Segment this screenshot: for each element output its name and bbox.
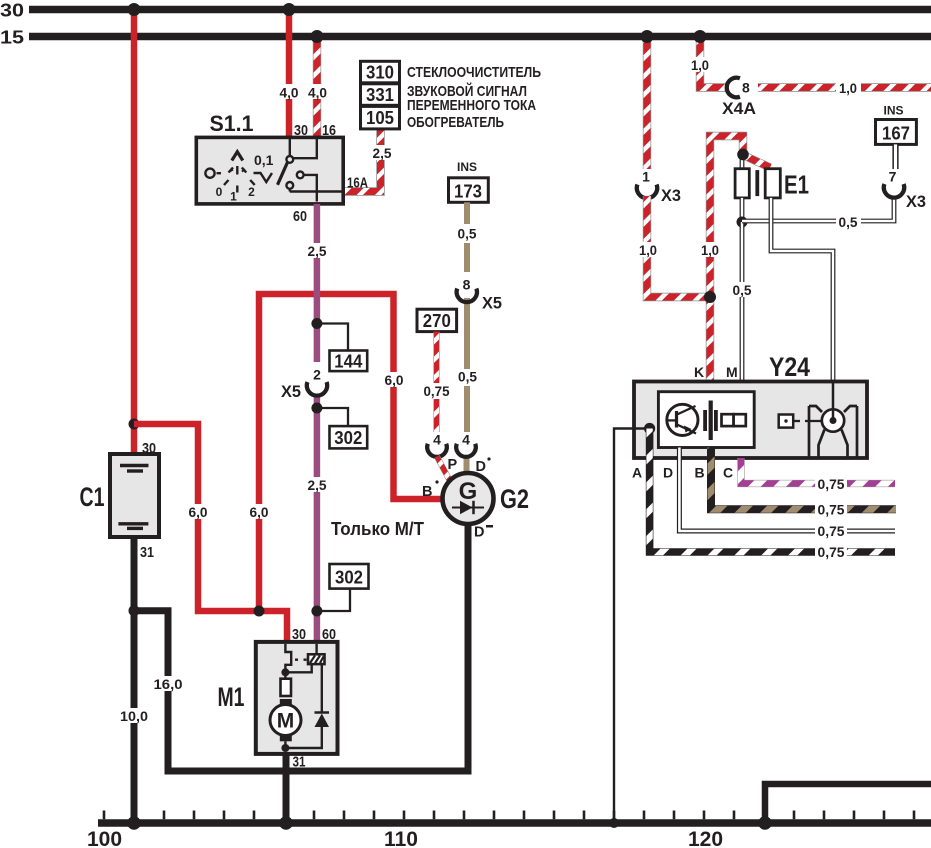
rail step to right edge bbox=[765, 784, 931, 823]
svg-text:110: 110 bbox=[384, 828, 418, 848]
svg-text:1,0: 1,0 bbox=[839, 81, 857, 96]
Y24 inner module box bbox=[658, 392, 754, 448]
svg-text:16: 16 bbox=[322, 122, 336, 139]
label 1,0 above X4A bbox=[688, 57, 713, 73]
node junction purple to 302 bbox=[311, 403, 322, 414]
svg-text:16,0: 16,0 bbox=[154, 677, 183, 692]
fuse box 105 bbox=[361, 106, 400, 128]
connector chain INS 167 bbox=[876, 103, 917, 144]
wire thin black from Y24 to rail bbox=[614, 429, 650, 824]
svg-text:0,5: 0,5 bbox=[733, 283, 752, 298]
svg-text:331: 331 bbox=[366, 85, 394, 105]
label 2,5 on 16A wire bbox=[369, 145, 394, 161]
svg-text:1,0: 1,0 bbox=[639, 243, 657, 258]
node junction red branch at (134,424) bbox=[129, 419, 140, 430]
svg-text:2,5: 2,5 bbox=[308, 478, 327, 493]
node junction on bus 15 at x=700 bbox=[694, 30, 707, 43]
svg-text:E1: E1 bbox=[784, 170, 809, 200]
svg-text:4: 4 bbox=[462, 432, 470, 448]
capacitor bars in Y24 bbox=[703, 401, 718, 441]
wire hatched diagonal to E1 right element bbox=[745, 156, 770, 168]
svg-text:302: 302 bbox=[335, 568, 363, 588]
label 0,75 on A wire bbox=[815, 545, 847, 561]
svg-text:B: B bbox=[422, 484, 432, 500]
svg-text:M: M bbox=[726, 364, 738, 380]
ground box 302 upper bbox=[330, 426, 368, 448]
svg-text:30: 30 bbox=[294, 122, 308, 139]
wire hatched red/white 1,0 from X3-1 to junction bbox=[647, 196, 710, 297]
G2 diode symbol bbox=[452, 501, 484, 514]
node junction white wires at (742,222) bbox=[737, 217, 748, 228]
node junction on bus 30 at x=289 bbox=[283, 3, 296, 16]
wire red 4,0 from bus 30 to S1.1 pin 30 bbox=[286, 10, 293, 139]
svg-text:C: C bbox=[723, 465, 733, 481]
svg-text:2: 2 bbox=[248, 185, 255, 199]
connector 4 P at G2 bbox=[427, 432, 457, 474]
svg-text:60: 60 bbox=[322, 626, 336, 643]
svg-text:16A: 16A bbox=[347, 176, 368, 192]
M1 node junction bbox=[281, 668, 289, 676]
wire white 0,5 from junction to X3 pin 7 bbox=[742, 198, 894, 221]
M1 resistor bbox=[281, 679, 292, 696]
svg-text:X5: X5 bbox=[281, 383, 301, 401]
svg-text:6,0: 6,0 bbox=[189, 505, 208, 520]
svg-text:ОБОГРЕВАТЕЛЬ: ОБОГРЕВАТЕЛЬ bbox=[407, 114, 504, 131]
svg-text:10,0: 10,0 bbox=[120, 709, 148, 724]
bus 30 bbox=[0, 0, 931, 21]
battery C1 bbox=[80, 454, 160, 537]
svg-text:0,75: 0,75 bbox=[818, 477, 845, 492]
Y24 bottom terminal labels A D B C bbox=[632, 465, 733, 481]
wire hatched tan/black 0,75 from Y24 B bbox=[711, 448, 896, 510]
wire to ground box 144 bbox=[317, 324, 348, 351]
svg-text:4,0: 4,0 bbox=[308, 86, 327, 101]
svg-text:0,75: 0,75 bbox=[818, 545, 845, 560]
M1 pin labels bbox=[292, 626, 336, 771]
svg-text:30: 30 bbox=[0, 0, 24, 21]
node junction on bus 15 at x=317 bbox=[311, 30, 324, 43]
label 6,0 on middle red riser bbox=[246, 504, 272, 520]
node junction purple to 144 bbox=[311, 318, 322, 329]
M1 relay contact bbox=[285, 644, 306, 669]
wire black C1 ground 10,0 to bottom rail bbox=[131, 537, 138, 823]
label 4,0 on red S1.1 feed bbox=[277, 84, 302, 101]
svg-text:100: 100 bbox=[87, 828, 122, 848]
svg-text:X3: X3 bbox=[661, 187, 681, 205]
label 0,5 on M wire bbox=[730, 282, 755, 298]
S1.1 position labels 0 1 2 and 0,1 bbox=[216, 152, 274, 204]
svg-text:0,5: 0,5 bbox=[458, 227, 477, 242]
wire to ground box 302 lower bbox=[317, 589, 350, 611]
label 10,0 on C1 ground wire bbox=[118, 708, 151, 724]
wire white 0,5 from junction to Y24 M bbox=[740, 222, 745, 381]
connector 4 D at G2 bbox=[456, 432, 490, 476]
wire hatched magenta/white 0,75 from Y24 C bbox=[741, 458, 895, 484]
wire thin hatched 0,75 from 270 to connector P bbox=[433, 332, 439, 441]
svg-text:0,1: 0,1 bbox=[254, 152, 274, 168]
M1 diode bbox=[315, 713, 330, 728]
svg-text:0,5: 0,5 bbox=[839, 215, 858, 230]
connector box 270 bbox=[417, 309, 457, 331]
wire purple 60 from S1.1 to M1 pin 60 bbox=[314, 204, 321, 643]
node junction on bus 15 at x=647 bbox=[641, 30, 654, 43]
S1.1 internal rotary symbol bbox=[205, 152, 254, 193]
svg-text:ПЕРЕМЕННОГО ТОКА: ПЕРЕМЕННОГО ТОКА bbox=[407, 97, 536, 114]
svg-text:1: 1 bbox=[230, 190, 237, 204]
wire white from E1 left element to junction bbox=[740, 198, 745, 222]
node junction in Y24 at A terminal bbox=[644, 423, 655, 434]
svg-text:15: 15 bbox=[0, 27, 24, 48]
svg-text:31: 31 bbox=[293, 754, 306, 771]
svg-text:31: 31 bbox=[140, 544, 154, 561]
fuse box 331 bbox=[361, 84, 400, 106]
rail junction dots bbox=[127, 816, 141, 830]
label 2,5 upper on purple wire bbox=[305, 243, 330, 259]
svg-text:2,5: 2,5 bbox=[373, 146, 392, 161]
svg-text:M1: M1 bbox=[218, 682, 245, 712]
svg-text:310: 310 bbox=[366, 63, 394, 83]
rail tick marks bbox=[104, 811, 914, 820]
wire thin hatched P to G2 B bbox=[437, 457, 452, 484]
svg-text:144: 144 bbox=[334, 352, 362, 372]
connector X3 pin 1 bbox=[637, 169, 681, 206]
node junction purple to 302 lower bbox=[311, 606, 322, 617]
ground box 144 bbox=[330, 351, 368, 372]
label 0,75 on B wire bbox=[815, 502, 847, 518]
svg-text:105: 105 bbox=[366, 108, 394, 128]
M1 brush bottom bbox=[280, 735, 292, 742]
node junction red at (259,611) bbox=[254, 606, 265, 617]
transistor symbol in Y24 bbox=[667, 404, 698, 435]
svg-text:D: D bbox=[474, 525, 484, 541]
coil symbol in Y24 bbox=[809, 383, 857, 457]
svg-text:X3: X3 bbox=[906, 193, 926, 211]
connector X5 pin 2 on purple wire bbox=[281, 362, 328, 401]
wire red 6,0 riser to G2 B+ bbox=[259, 294, 444, 611]
label 0,5 on X3-7 wire bbox=[836, 214, 861, 230]
svg-text:S1.1: S1.1 bbox=[210, 111, 254, 136]
node junction on bus 30 at x=134 bbox=[128, 3, 141, 16]
svg-text:INS: INS bbox=[884, 103, 904, 117]
wire hatched red/white from bus15 to connector X3 pin 1 bbox=[643, 37, 651, 173]
M1 internal wires bbox=[285, 644, 321, 748]
svg-text:2,5: 2,5 bbox=[308, 244, 327, 259]
svg-text:1: 1 bbox=[642, 169, 650, 185]
wire red battery feed from bus 30 to C1 bbox=[131, 10, 138, 455]
label 2,5 lower on purple wire bbox=[305, 477, 330, 493]
wire hatched black/white 0,75 from Y24 A bbox=[650, 429, 895, 553]
label 1,0 on right wire bbox=[836, 80, 861, 96]
svg-text:6,0: 6,0 bbox=[250, 505, 269, 520]
S1.1 pin labels bbox=[293, 122, 336, 225]
svg-text:0,75: 0,75 bbox=[818, 524, 845, 539]
svg-text:A: A bbox=[632, 465, 642, 481]
rail scale labels bbox=[87, 828, 723, 848]
bus 15 bbox=[0, 27, 931, 48]
label 0,75 on C wire bbox=[815, 476, 847, 492]
wire hatched red/white 1,0 from bus15 to X4A bbox=[700, 37, 726, 88]
svg-text:4,0: 4,0 bbox=[280, 86, 299, 101]
svg-text:8: 8 bbox=[463, 277, 471, 293]
generator G2 bbox=[443, 473, 530, 524]
S1.1 contact circles bbox=[286, 156, 303, 189]
S1.1 contact mechanism bbox=[254, 139, 342, 202]
connector X5 pin 8 on tan wire bbox=[457, 277, 502, 313]
wire hatched red/white 1,0 to right edge bbox=[758, 83, 931, 91]
svg-text:1,0: 1,0 bbox=[691, 58, 709, 73]
node junction black at (134,611) bbox=[129, 605, 140, 616]
svg-text:C1: C1 bbox=[80, 482, 105, 512]
M1 motor bbox=[270, 705, 301, 736]
svg-text:302: 302 bbox=[334, 428, 362, 448]
svg-text:0,75: 0,75 bbox=[818, 502, 845, 517]
svg-text:270: 270 bbox=[423, 311, 451, 331]
connector X4A pin 8 bbox=[722, 78, 756, 118]
svg-text:INS: INS bbox=[457, 160, 477, 174]
connector pair symbol in Y24 bbox=[722, 414, 746, 426]
wire white short E1 left element top bbox=[740, 155, 745, 169]
wire tan 0,5 from INS173 down to G2 D bbox=[464, 202, 471, 475]
starter M1 bbox=[218, 642, 338, 754]
wire hatched red/white 2,5 from fuse 105 to S1.1 pin 16A bbox=[343, 129, 381, 192]
wire hatched red/white riser to E1 and down to Y24 K bbox=[710, 136, 743, 381]
svg-text:X4A: X4A bbox=[722, 100, 756, 118]
svg-text:173: 173 bbox=[454, 182, 482, 202]
svg-text:2: 2 bbox=[313, 367, 321, 383]
svg-text:30: 30 bbox=[142, 440, 156, 457]
svg-text:M: M bbox=[277, 710, 295, 733]
C1 plates bbox=[118, 466, 148, 529]
fuse box 310 bbox=[361, 61, 400, 83]
svg-text:Только М/Т: Только М/Т bbox=[331, 519, 424, 539]
label 1,0 on K riser bbox=[698, 242, 723, 258]
heater plug E1 junction dot bbox=[737, 149, 749, 161]
svg-text:0,5: 0,5 bbox=[458, 370, 477, 385]
svg-text:СТЕКЛООЧИСТИТЕЛЬ: СТЕКЛООЧИСТИТЕЛЬ bbox=[407, 64, 541, 81]
svg-text:Y24: Y24 bbox=[769, 352, 810, 382]
svg-text:6,0: 6,0 bbox=[385, 373, 404, 388]
svg-text:P: P bbox=[448, 457, 458, 473]
svg-text:120: 120 bbox=[688, 828, 723, 848]
label 0,75 on D wire bbox=[815, 524, 847, 540]
svg-text:B: B bbox=[695, 465, 705, 481]
svg-text:7: 7 bbox=[889, 169, 897, 185]
svg-text:0: 0 bbox=[216, 185, 223, 199]
svg-text:30: 30 bbox=[292, 626, 306, 643]
connector X3 pin 7 bbox=[884, 169, 926, 212]
svg-text:4: 4 bbox=[433, 432, 441, 448]
ground box 302 lower bbox=[330, 564, 369, 589]
svg-text:D: D bbox=[663, 465, 673, 481]
wire hatched red/white 4,0 from bus 15 to S1.1 pin 16 bbox=[313, 37, 321, 139]
label 6,0 on G2 red riser bbox=[381, 372, 407, 388]
EGR valve Y24 bbox=[634, 352, 867, 458]
wire red 6,0 from C1 junction to M1 pin 30 bbox=[134, 424, 287, 643]
svg-text:0,75: 0,75 bbox=[424, 384, 450, 399]
svg-text:8: 8 bbox=[742, 80, 750, 96]
svg-text:G2: G2 bbox=[500, 484, 529, 514]
label 1,0 on X3-1 wire bbox=[635, 242, 660, 258]
svg-text:1,0: 1,0 bbox=[701, 243, 719, 258]
svg-text:X5: X5 bbox=[482, 295, 502, 313]
M1 brush top bbox=[280, 699, 292, 706]
wire black M1 pin31 to rail bbox=[283, 755, 290, 824]
bottom rail ground bus bbox=[98, 819, 931, 827]
svg-text:167: 167 bbox=[882, 124, 910, 144]
wire white 0,75 from Y24 D bbox=[679, 448, 895, 532]
label 4,0 on hatched S1.1 feed bbox=[305, 84, 330, 101]
wire white from E1 right element to Y24 coil bbox=[771, 198, 833, 381]
heater plug E1 bbox=[735, 169, 809, 200]
wire to ground box 302 upper bbox=[317, 408, 348, 426]
label 6,0 on left red riser bbox=[185, 504, 211, 520]
wire white from INS167 to X3 pin 7 bbox=[892, 144, 898, 170]
connector chain INS 173 bbox=[449, 160, 489, 202]
switch S1.1 ignition bbox=[196, 111, 343, 204]
M1 solenoid coil bbox=[308, 654, 325, 664]
sensor box symbol in Y24 bbox=[779, 415, 822, 428]
svg-text:K: K bbox=[694, 364, 704, 380]
wire black 16,0 to G2 D- bbox=[134, 524, 468, 771]
svg-text:60: 60 bbox=[293, 208, 307, 225]
label 16,0 on black wire bbox=[152, 676, 185, 692]
node junction hatched at (710,297) bbox=[704, 291, 716, 303]
label D- at G2 bottom bbox=[474, 525, 493, 541]
